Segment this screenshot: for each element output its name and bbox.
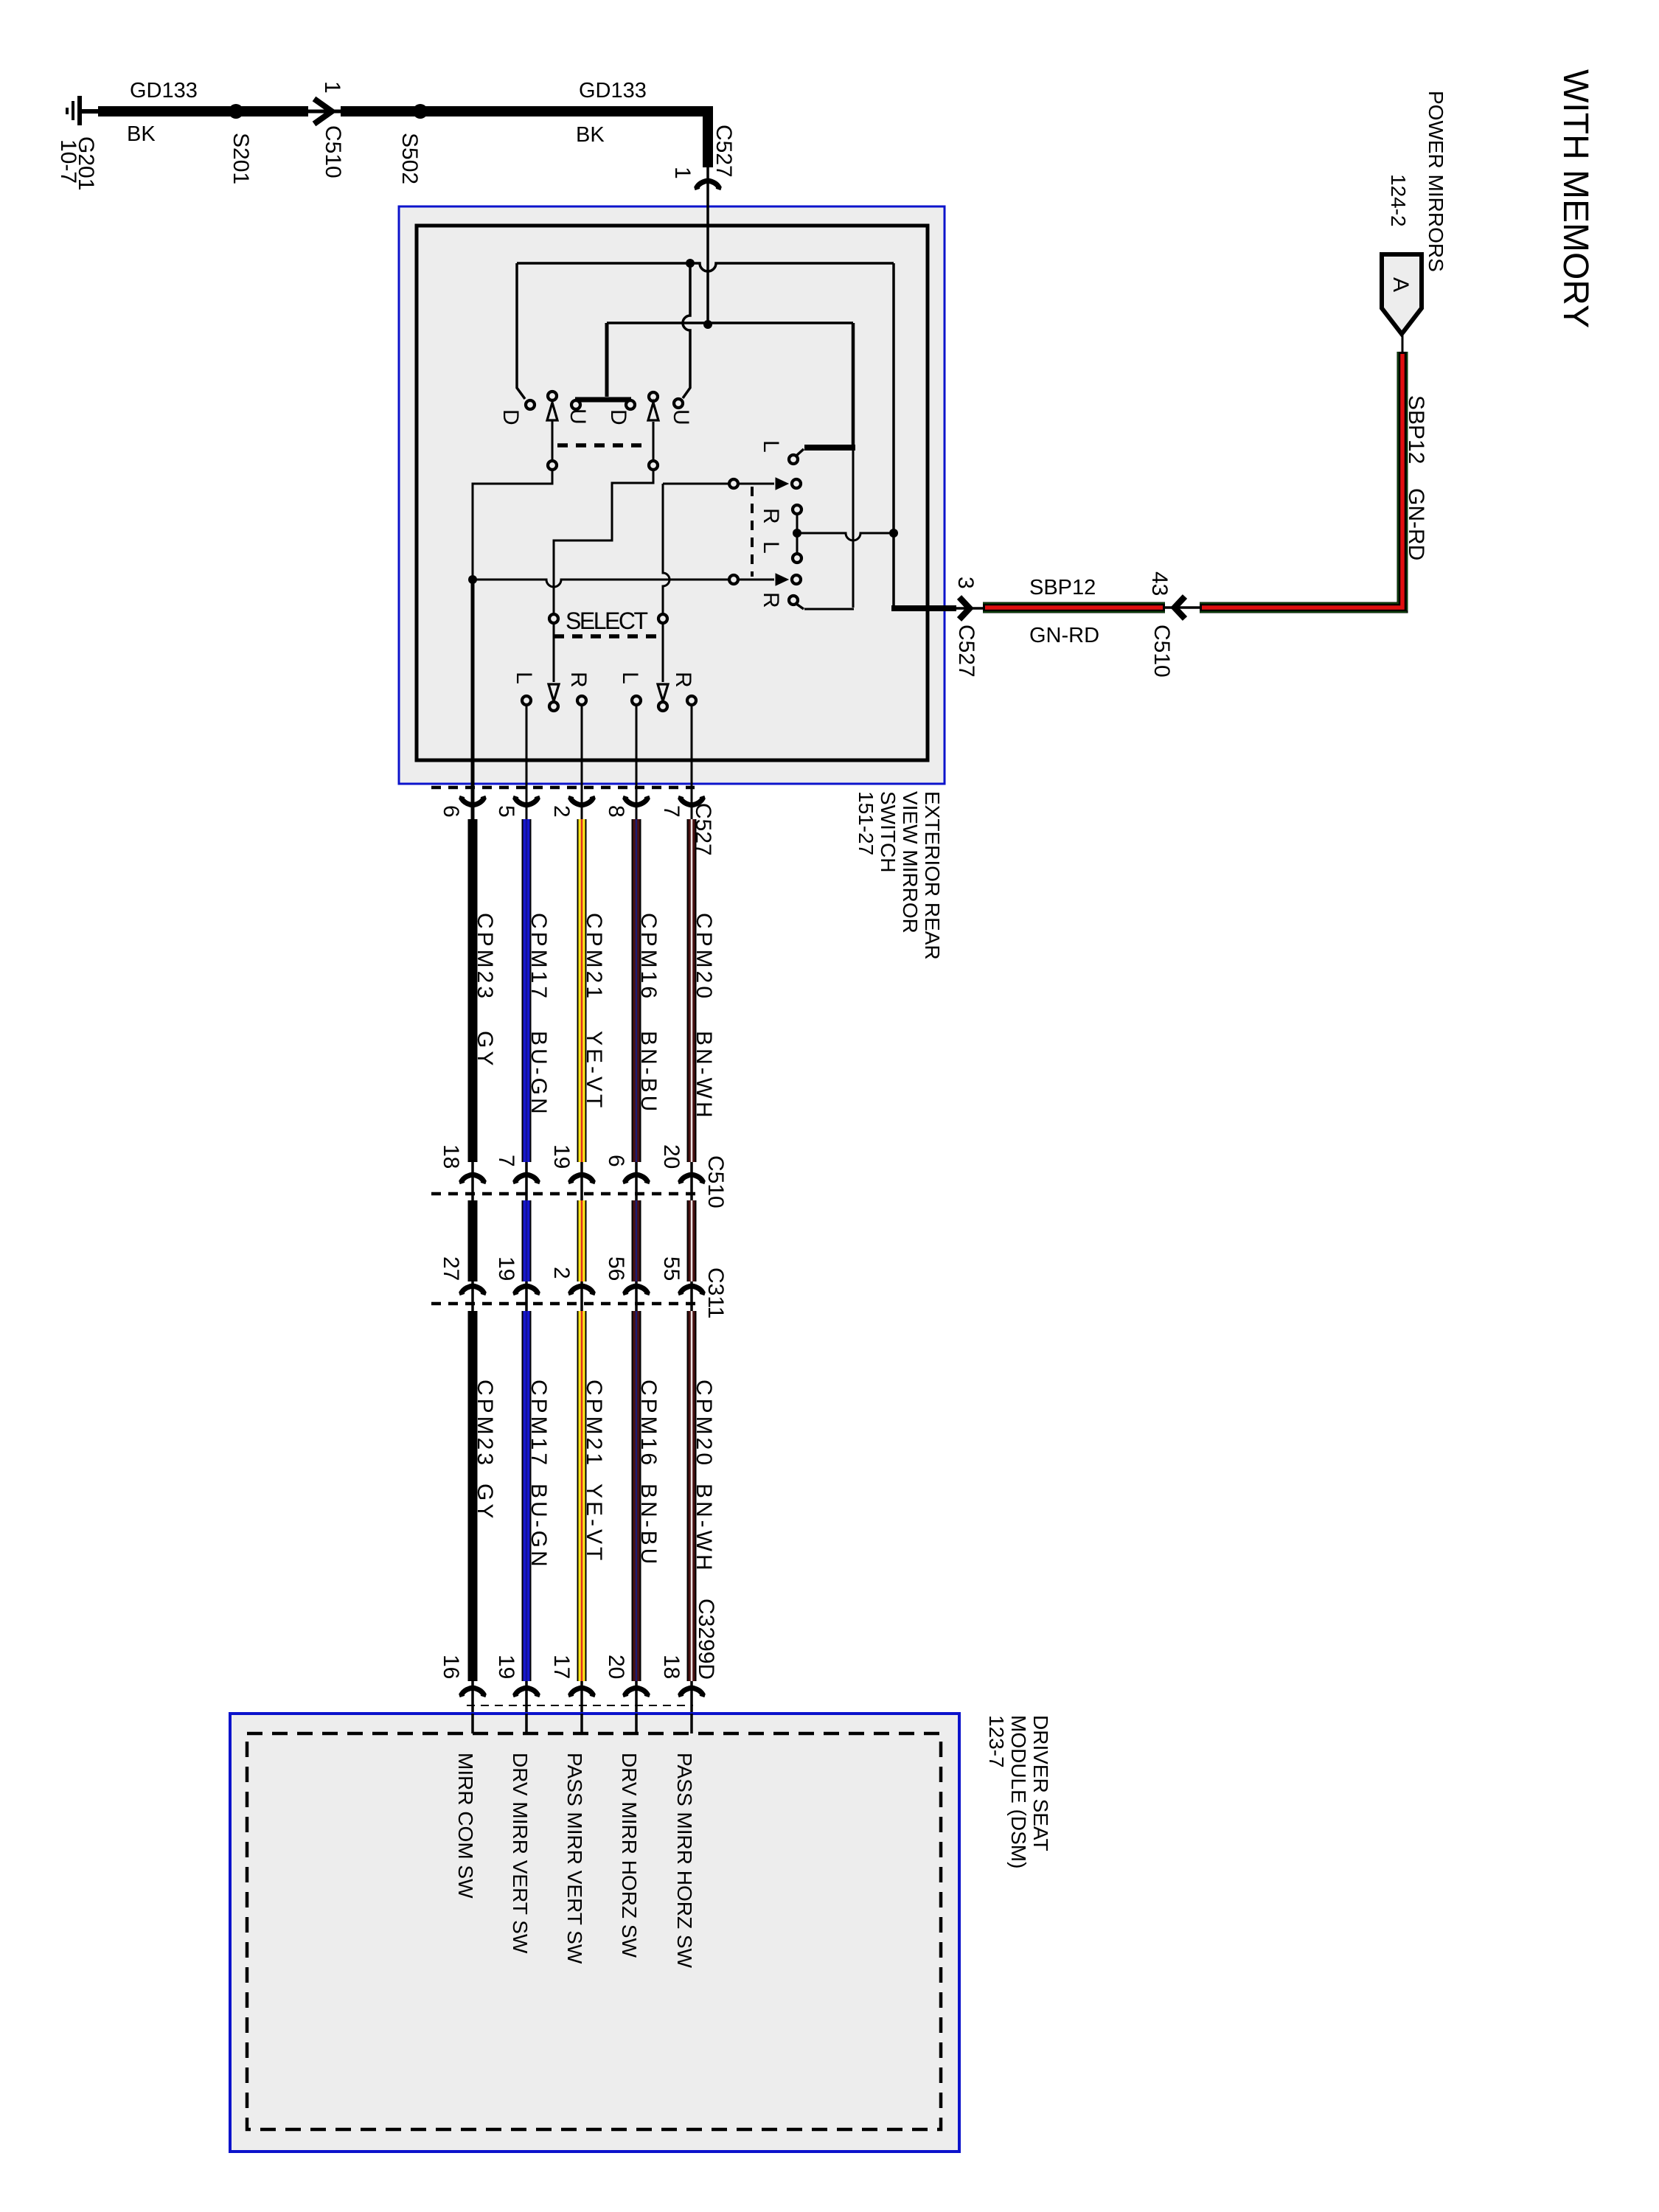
wire line1 (to right rocker middle) <box>663 483 774 485</box>
svg-text:CPM16: CPM16 <box>636 1380 661 1468</box>
svg-text:55: 55 <box>659 1256 684 1281</box>
switch member 1 (U/D arm with arrow) <box>473 392 557 580</box>
wire W1 left leg to D arm <box>517 263 525 399</box>
SELECT fixed contact L (pin8) <box>618 672 642 821</box>
svg-text:L: L <box>618 672 642 684</box>
wire pin6 drop <box>471 580 475 821</box>
svg-text:C510: C510 <box>321 125 345 178</box>
svg-text:BN-WH: BN-WH <box>692 1484 716 1573</box>
svg-text:R: R <box>759 508 783 524</box>
svg-text:19: 19 <box>494 1256 518 1281</box>
svg-text:POWER MIRRORS: POWER MIRRORS <box>1425 91 1447 272</box>
svg-text:8: 8 <box>604 805 628 818</box>
wire W2 right leg <box>852 323 855 445</box>
svg-text:L: L <box>759 541 783 554</box>
svg-text:20: 20 <box>659 1144 684 1169</box>
svg-text:GD133: GD133 <box>130 79 198 102</box>
connector row C510 (dashed) <box>431 1192 702 1196</box>
contact circle on line2 <box>729 575 738 584</box>
SELECT pole 2 arm <box>658 484 669 711</box>
svg-text:56: 56 <box>604 1256 628 1281</box>
svg-text:6: 6 <box>604 1155 628 1167</box>
svg-text:L: L <box>759 440 783 453</box>
svg-text:17: 17 <box>549 1655 574 1679</box>
pin labels C3299D row <box>439 1655 684 1679</box>
L arm (right rocker top) <box>796 449 804 456</box>
svg-text:5: 5 <box>494 805 518 818</box>
svg-text:L: L <box>512 672 536 684</box>
connector arrow pin 43 C510 (left-pointing) <box>1165 597 1200 619</box>
wire stubs into DSM <box>473 1714 692 1733</box>
svg-text:CPM23: CPM23 <box>473 1380 497 1468</box>
contact circle on line1 <box>729 479 738 488</box>
node junction middle column <box>793 529 801 538</box>
svg-text:BU-GN: BU-GN <box>526 1031 551 1117</box>
wire SBP12 GN-RD segment 1 <box>983 603 1165 612</box>
DSM inner dashed border <box>247 1733 941 2129</box>
connector row C527 (dashed) <box>431 786 695 790</box>
SELECT fixed contact R (pin2) <box>566 672 591 821</box>
pin labels C510 row <box>439 1144 684 1169</box>
svg-text:SBP12: SBP12 <box>1029 576 1096 599</box>
connector arrows C527 row (down) <box>462 796 703 805</box>
svg-text:CPM23: CPM23 <box>473 913 497 1001</box>
svg-text:CPM21: CPM21 <box>582 913 606 1001</box>
svg-text:A: A <box>1388 277 1413 292</box>
driver seat module box (blue outline) <box>230 1714 959 2152</box>
svg-text:DRV MIRR HORZ SW: DRV MIRR HORZ SW <box>618 1753 641 1958</box>
wire CPM21 YE-VT run2 <box>577 1311 587 1681</box>
svg-text:BN-WH: BN-WH <box>692 1031 716 1121</box>
connector arrows C3299D row (up) <box>462 1681 703 1714</box>
wire CPM21 YE-VT run1 <box>577 819 587 1162</box>
svg-text:1: 1 <box>670 167 695 179</box>
wire CPM20 BN-WH run1 <box>687 819 697 1162</box>
svg-text:BK: BK <box>127 122 156 146</box>
wire W1 (SBP12 feed bus) <box>517 263 894 271</box>
splice S201 <box>229 104 243 119</box>
svg-text:10-7: 10-7 <box>56 139 80 184</box>
svg-text:2: 2 <box>549 805 574 818</box>
wire CPM16 BN-BU run2 <box>632 1311 641 1681</box>
svg-text:1: 1 <box>320 81 344 94</box>
arrow contact line2 <box>776 574 788 585</box>
svg-text:CPM17: CPM17 <box>526 1380 551 1468</box>
thick bar to L arm (right rocker) <box>804 445 855 451</box>
svg-text:C527: C527 <box>954 625 978 678</box>
inline connector C510 pin 1 (through splice) <box>302 99 345 124</box>
node junction pin6 bus <box>468 575 477 584</box>
wire right leg thin <box>852 448 855 608</box>
svg-text:R: R <box>671 672 695 688</box>
svg-text:DRV MIRR VERT SW: DRV MIRR VERT SW <box>509 1753 532 1954</box>
connector A (power mirrors) <box>1382 254 1422 334</box>
linkage dashes (left rocker) <box>557 443 649 448</box>
svg-text:C510: C510 <box>703 1155 728 1208</box>
svg-text:YE-VT: YE-VT <box>582 1031 606 1110</box>
svg-text:C3299D: C3299D <box>694 1599 718 1680</box>
svg-text:S201: S201 <box>229 133 253 184</box>
wire link to pin3 riser (with hop) <box>797 533 891 540</box>
node junction on pin3 riser <box>889 529 898 538</box>
R arm pivot circle <box>789 596 798 605</box>
rocker linkage dashes (vertical) <box>751 487 754 577</box>
svg-text:6: 6 <box>439 805 463 818</box>
svg-text:R: R <box>566 672 591 688</box>
SELECT fixed contact L (pin5) <box>512 672 536 821</box>
svg-text:SELECT: SELECT <box>566 608 647 634</box>
ground G201 <box>67 96 100 125</box>
svg-text:18: 18 <box>659 1655 684 1679</box>
svg-text:7: 7 <box>659 805 684 818</box>
splice S502 <box>413 104 428 119</box>
wire CPM23 GY run2 <box>468 1311 478 1681</box>
contact circle U (bar left) <box>571 400 580 409</box>
wire W2 (ground bus) with hop <box>607 321 853 324</box>
wire CPM17 BU-GN run2 <box>522 1311 532 1681</box>
splice node on W1 <box>686 259 695 268</box>
svg-text:124-2: 124-2 <box>1387 174 1410 227</box>
svg-text:43: 43 <box>1147 571 1172 596</box>
svg-text:BN-BU: BN-BU <box>636 1484 661 1567</box>
node junction W2 / GD133 <box>703 320 712 329</box>
svg-text:19: 19 <box>549 1144 574 1169</box>
switch member 2 (U/D arm with arrow) <box>554 392 658 613</box>
wire line2 (lower horizontal to right rocker) with hops <box>473 580 774 587</box>
svg-text:YE-VT: YE-VT <box>582 1484 606 1563</box>
wire pin 3 exit (thick) <box>891 605 956 611</box>
contact U arm pivot (left rocker) <box>674 399 683 408</box>
svg-text:27: 27 <box>439 1256 463 1281</box>
svg-text:7: 7 <box>494 1155 518 1167</box>
svg-text:U: U <box>669 409 693 425</box>
wire W1 right leg down <box>892 263 895 532</box>
svg-text:CPM16: CPM16 <box>636 913 661 1001</box>
arrow contact line1 <box>776 478 788 490</box>
svg-text:GD133: GD133 <box>579 79 647 102</box>
svg-text:CPM20: CPM20 <box>692 913 716 1001</box>
L arm pivot circle <box>789 455 798 464</box>
svg-text:18: 18 <box>439 1144 463 1169</box>
wire CPM23 GY run1 <box>468 819 478 1162</box>
svg-text:GN-RD: GN-RD <box>1404 488 1428 560</box>
svg-text:BN-BU: BN-BU <box>636 1031 661 1114</box>
svg-text:GN-RD: GN-RD <box>1029 624 1099 647</box>
connector arrow pin 3 C527 (right) <box>956 597 983 619</box>
svg-text:S502: S502 <box>397 133 422 184</box>
SELECT fixed contact R (pin7) <box>671 672 696 821</box>
contact D arm pivot (left rocker) <box>526 400 535 409</box>
svg-text:GY: GY <box>473 1484 497 1521</box>
connector arrows C311 row (up) <box>462 1281 703 1311</box>
svg-text:R: R <box>759 592 783 608</box>
R arm (right rocker bottom) <box>796 604 804 609</box>
wire W2 left leg <box>605 323 609 397</box>
svg-text:C527: C527 <box>712 125 736 178</box>
svg-text:CPM20: CPM20 <box>692 1380 716 1468</box>
svg-text:3: 3 <box>953 577 978 589</box>
wire GD133 BK segment 2 (to corner) <box>341 111 708 167</box>
svg-text:CPM21: CPM21 <box>582 1380 606 1468</box>
contact circle D (bar right) <box>626 400 635 409</box>
contact bar U-D (left rocker) <box>575 397 631 403</box>
svg-text:PASS MIRR VERT SW: PASS MIRR VERT SW <box>563 1753 586 1964</box>
svg-text:GY: GY <box>473 1031 497 1068</box>
wire GD133 BK segment 1 <box>98 106 308 116</box>
svg-text:D: D <box>498 409 523 425</box>
svg-text:PASS MIRR HORZ SW: PASS MIRR HORZ SW <box>673 1753 696 1969</box>
svg-text:SBP12: SBP12 <box>1404 395 1428 464</box>
fixed contact circle (line1 target) <box>792 479 801 488</box>
middle column contacts (right rocker) <box>793 505 801 563</box>
wire CPM20 BN-WH run2 <box>687 1311 697 1681</box>
wire bottom arm connect <box>804 608 854 611</box>
svg-text:WITH MEMORY: WITH MEMORY <box>1556 69 1595 328</box>
exterior rear view mirror switch box (blue outline) <box>399 206 945 784</box>
wire SBP12 GN-RD segment 2 (corner up to connector A) <box>1200 334 1408 612</box>
svg-text:C510: C510 <box>1150 625 1174 678</box>
switch box inner black border <box>417 226 928 760</box>
wire segments between C510 and C311 <box>473 1200 692 1281</box>
connector arrow C527 pin 1 <box>697 181 719 189</box>
svg-text:BU-GN: BU-GN <box>526 1484 551 1570</box>
connector row C311 (dashed) <box>431 1302 702 1306</box>
svg-text:U: U <box>566 408 590 425</box>
wire CPM17 BU-GN run1 <box>522 819 532 1162</box>
pin labels C311 row <box>439 1256 684 1281</box>
svg-text:D: D <box>606 409 630 425</box>
wire W1 middle leg to U arm <box>683 263 690 398</box>
SELECT pole 1 arm <box>549 614 559 711</box>
wire CPM16 BN-BU run1 <box>632 819 641 1162</box>
svg-text:C311: C311 <box>703 1267 728 1319</box>
SELECT linkage dashes <box>554 634 661 639</box>
svg-text:19: 19 <box>494 1655 518 1679</box>
connector arrows C510 row (up) <box>462 1162 703 1200</box>
wire pin3 riser lower <box>892 533 895 607</box>
fixed contact circle (line2 target) <box>792 575 801 584</box>
svg-text:2: 2 <box>549 1267 574 1279</box>
wire GD133 feed inside box (vertical with hop) <box>706 167 709 323</box>
svg-text:MIRR COM SW: MIRR COM SW <box>454 1753 477 1899</box>
svg-text:CPM17: CPM17 <box>526 913 551 1001</box>
ground label G201 10-7 <box>56 136 98 190</box>
svg-text:16: 16 <box>439 1655 463 1679</box>
svg-text:BK: BK <box>576 123 605 147</box>
svg-text:20: 20 <box>604 1655 628 1679</box>
connector row C3299D (thin dashed) <box>467 1705 693 1706</box>
pin labels C527 row <box>439 805 684 818</box>
